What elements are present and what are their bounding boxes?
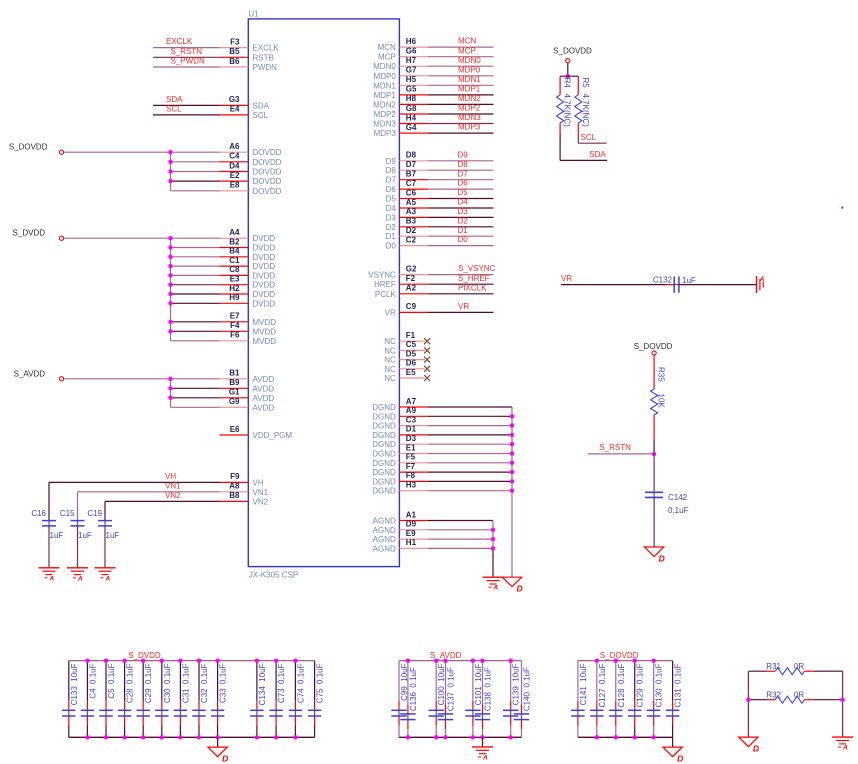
junction bbox=[651, 735, 655, 739]
pin E1 (DGND) bbox=[372, 443, 428, 458]
svg-text:MDN1: MDN1 bbox=[458, 75, 481, 84]
svg-text:SCL: SCL bbox=[166, 105, 182, 114]
svg-text:DOVDD: DOVDD bbox=[253, 177, 282, 186]
wire net D8 bbox=[428, 169, 494, 171]
IC U1 JX-K305 CSP bbox=[248, 10, 399, 580]
svg-text:A7: A7 bbox=[406, 397, 417, 406]
wire C19 to ground bbox=[104, 526, 106, 568]
bus wire S_AVDD top rail bbox=[399, 660, 522, 662]
capacitor C137 bbox=[438, 661, 456, 738]
junction bbox=[160, 659, 164, 663]
ground D (S_DVDD) bbox=[208, 747, 228, 764]
svg-text:A3: A3 bbox=[406, 207, 417, 216]
power symbol S_DOVDD bbox=[9, 143, 64, 155]
svg-text:C142: C142 bbox=[668, 493, 688, 502]
power net label S_AVDD bbox=[430, 651, 462, 660]
junction bbox=[168, 396, 172, 400]
wire net S_PWDN bbox=[153, 66, 220, 68]
junction bbox=[510, 470, 514, 474]
svg-text:D0: D0 bbox=[458, 235, 469, 244]
pin E5 (NC) bbox=[384, 368, 425, 383]
svg-text:C127 0.1uF: C127 0.1uF bbox=[598, 663, 607, 707]
junction bbox=[168, 245, 172, 249]
pin A2 (PCLK) bbox=[375, 284, 428, 299]
pin H2 (DVDD) bbox=[220, 284, 276, 299]
svg-text:C139 10uF: C139 10uF bbox=[512, 663, 521, 705]
svg-text:S_DVDD: S_DVDD bbox=[128, 651, 161, 660]
junction bbox=[633, 735, 637, 739]
junction bbox=[168, 273, 172, 277]
wire C16 to ground bbox=[48, 526, 50, 568]
junction bbox=[510, 433, 514, 437]
wire DGND bbox=[428, 425, 512, 427]
value label C16 1uF bbox=[50, 531, 64, 540]
wire S_DVDD feed bbox=[64, 237, 171, 239]
junction bbox=[510, 489, 514, 493]
svg-text:R5: R5 bbox=[581, 78, 590, 89]
svg-text:D4: D4 bbox=[386, 204, 397, 213]
junction bbox=[141, 735, 145, 739]
svg-text:MDP3: MDP3 bbox=[458, 123, 481, 132]
pin A8 (VN1) bbox=[220, 482, 269, 497]
pin H6 (MCN) bbox=[378, 37, 428, 52]
resistor R31 bbox=[766, 662, 804, 675]
pin B8 (VN2) bbox=[220, 491, 269, 506]
power symbol S_DOVDD (R35) bbox=[634, 342, 673, 355]
pin F3 (EXCLK) bbox=[220, 37, 280, 52]
svg-text:H3: H3 bbox=[406, 481, 417, 490]
wire net PIXCLK bbox=[428, 293, 494, 295]
resistor value R35 10K bbox=[657, 394, 666, 409]
svg-text:MDP3: MDP3 bbox=[374, 129, 397, 138]
svg-text:C128 0.1uF: C128 0.1uF bbox=[617, 663, 626, 707]
svg-text:B5: B5 bbox=[229, 47, 240, 56]
wire net SDA (pullup) bbox=[560, 134, 607, 160]
pin E8 (DOVDD) bbox=[220, 181, 282, 196]
wire S_AVDD branch bbox=[171, 406, 220, 408]
bus wire AGND vertical bbox=[492, 521, 494, 578]
svg-text:R31: R31 bbox=[766, 662, 781, 671]
wire S_DVDD branch bbox=[171, 302, 220, 304]
svg-text:VN1: VN1 bbox=[253, 488, 269, 497]
bus wire S_DOVDD vertical bbox=[170, 152, 172, 191]
svg-text:C140 0.1uF: C140 0.1uF bbox=[523, 667, 532, 711]
pin E3 (DVDD) bbox=[220, 275, 276, 290]
wire S_DVDD branch bbox=[171, 284, 220, 286]
svg-text:C15: C15 bbox=[60, 509, 75, 518]
junction bbox=[104, 659, 108, 663]
junction bbox=[168, 264, 172, 268]
pin A5 (D4) bbox=[386, 198, 428, 213]
junction bbox=[168, 236, 172, 240]
wire AGND bbox=[428, 547, 493, 549]
power symbol S_DOVDD (pullups) bbox=[553, 47, 592, 63]
svg-text:F7: F7 bbox=[406, 462, 416, 471]
wire net VR bbox=[428, 311, 494, 313]
svg-text:D8: D8 bbox=[406, 151, 417, 160]
net label VN1 bbox=[165, 481, 181, 490]
svg-text:S_RSTN: S_RSTN bbox=[599, 443, 631, 452]
junction bbox=[434, 659, 438, 663]
svg-text:DGND: DGND bbox=[372, 431, 396, 440]
net label D8 bbox=[458, 160, 469, 169]
wire S_DOVDD branch bbox=[171, 161, 220, 163]
capacitor C140 bbox=[514, 661, 532, 738]
svg-text:F4: F4 bbox=[230, 321, 240, 330]
junction bbox=[491, 546, 495, 550]
wire net MDN2 bbox=[428, 103, 494, 105]
svg-text:DGND: DGND bbox=[372, 440, 396, 449]
junction bbox=[122, 659, 126, 663]
pin E2 (DOVDD) bbox=[220, 171, 282, 186]
wire net MDP2 bbox=[428, 113, 494, 115]
pin E7 (MVDD) bbox=[220, 312, 277, 327]
svg-text:MDP1: MDP1 bbox=[458, 85, 481, 94]
junction bbox=[510, 451, 514, 455]
svg-text:SDA: SDA bbox=[166, 95, 183, 104]
value label C142 0.1uF bbox=[668, 506, 689, 515]
svg-text:C130 0.1uF: C130 0.1uF bbox=[655, 663, 664, 707]
svg-text:C9: C9 bbox=[406, 302, 417, 311]
svg-text:D5: D5 bbox=[458, 188, 469, 197]
svg-text:10K: 10K bbox=[657, 394, 666, 409]
svg-text:DGND: DGND bbox=[372, 403, 396, 412]
bus wire DGND vertical bbox=[511, 407, 513, 577]
svg-text:MDP1: MDP1 bbox=[374, 91, 397, 100]
ground A (R31/R32) bbox=[832, 737, 853, 752]
wire net VH bbox=[49, 482, 220, 520]
junction bbox=[840, 698, 844, 702]
svg-text:MDN2: MDN2 bbox=[373, 100, 396, 109]
wire net D1 bbox=[428, 235, 494, 237]
svg-text:MDN2: MDN2 bbox=[458, 94, 481, 103]
junction bbox=[406, 659, 410, 663]
svg-text:B2: B2 bbox=[229, 237, 240, 246]
svg-text:DOVDD: DOVDD bbox=[253, 158, 282, 167]
capacitor C16 bbox=[31, 509, 56, 526]
pin F7 (DGND) bbox=[372, 462, 428, 477]
wire net MDN3 bbox=[428, 123, 494, 125]
wire net SCL bbox=[153, 114, 220, 116]
resistor R5 bbox=[575, 76, 590, 134]
svg-text:MVDD: MVDD bbox=[253, 318, 277, 327]
svg-text:DVDD: DVDD bbox=[253, 271, 276, 280]
wire R31 left bbox=[748, 670, 775, 672]
svg-text:EXCLK: EXCLK bbox=[166, 37, 193, 46]
pin H8 (MDN2) bbox=[373, 94, 428, 109]
pin A9 (DGND) bbox=[372, 406, 428, 421]
wire S_AVDD branch bbox=[171, 397, 220, 399]
pin C8 (DVDD) bbox=[220, 265, 276, 280]
wire net MDP0 bbox=[428, 75, 494, 77]
resistor R35 bbox=[651, 355, 666, 440]
svg-text:D: D bbox=[659, 554, 665, 564]
pin C9 (VR) bbox=[385, 302, 428, 317]
svg-text:C6: C6 bbox=[406, 188, 417, 197]
svg-text:PCLK: PCLK bbox=[375, 290, 397, 299]
wire S_DVDD branch bbox=[171, 330, 220, 332]
svg-text:4.7K(NC): 4.7K(NC) bbox=[563, 94, 572, 128]
junction bbox=[480, 659, 484, 663]
wire DGND bbox=[428, 480, 512, 482]
svg-text:A: A bbox=[105, 575, 111, 582]
svg-text:SCL: SCL bbox=[253, 111, 269, 120]
wire node to C142 bbox=[653, 454, 655, 492]
svg-text:C134 10uF: C134 10uF bbox=[258, 663, 267, 705]
svg-text:H2: H2 bbox=[229, 284, 240, 293]
svg-text:S_DOVDD: S_DOVDD bbox=[9, 143, 48, 152]
junction node S_RSTN bbox=[652, 452, 656, 456]
junction bbox=[197, 735, 201, 739]
svg-text:E7: E7 bbox=[230, 312, 240, 321]
junction bbox=[122, 735, 126, 739]
pin H3 (DGND) bbox=[372, 481, 428, 496]
svg-text:MDN3: MDN3 bbox=[458, 113, 481, 122]
svg-text:B3: B3 bbox=[406, 217, 417, 226]
junction bbox=[614, 735, 618, 739]
pin D7 (D8) bbox=[386, 160, 428, 175]
ground D (C142) bbox=[644, 547, 664, 564]
wire S_DOVDD branch bbox=[171, 180, 220, 182]
svg-text:DVDD: DVDD bbox=[253, 253, 276, 262]
svg-text:VR: VR bbox=[458, 302, 469, 311]
resistor value R31 0R bbox=[794, 662, 804, 671]
wire S_DVDD branch bbox=[171, 237, 220, 239]
svg-text:C7: C7 bbox=[406, 179, 417, 188]
svg-text:C1: C1 bbox=[229, 256, 240, 265]
svg-text:D9: D9 bbox=[386, 157, 397, 166]
svg-text:D1: D1 bbox=[458, 226, 469, 235]
junction bbox=[651, 659, 655, 663]
svg-text:D5: D5 bbox=[386, 195, 397, 204]
svg-text:S_RSTN: S_RSTN bbox=[171, 47, 203, 56]
svg-text:D6: D6 bbox=[386, 185, 397, 194]
svg-text:R32: R32 bbox=[766, 691, 781, 700]
wire net D0 bbox=[428, 245, 494, 247]
capacitor C130 bbox=[647, 661, 664, 738]
capacitor C129 bbox=[628, 661, 645, 738]
pin D3 (DGND) bbox=[372, 434, 428, 449]
svg-text:D: D bbox=[677, 754, 683, 764]
wire net S_RSTN bbox=[153, 56, 220, 58]
svg-text:A: A bbox=[842, 745, 848, 752]
junction bbox=[746, 698, 750, 702]
net label S_VSYNC bbox=[458, 264, 496, 273]
wire left vertical to D ground bbox=[747, 671, 749, 737]
capacitor C32 bbox=[192, 661, 209, 738]
wire AGND bbox=[428, 538, 493, 540]
junction bbox=[509, 735, 513, 739]
svg-text:D: D bbox=[753, 744, 759, 754]
svg-text:G8: G8 bbox=[406, 104, 417, 113]
net label S_RSTN bbox=[599, 443, 631, 452]
bus wire S_DVDD top rail bbox=[69, 660, 315, 662]
svg-text:D3: D3 bbox=[386, 213, 397, 222]
svg-text:H7: H7 bbox=[406, 56, 417, 65]
net label VH bbox=[165, 472, 176, 481]
net label D3 bbox=[458, 207, 469, 216]
svg-text:C33 0.1uF: C33 0.1uF bbox=[219, 663, 228, 703]
junction bbox=[160, 735, 164, 739]
svg-text:AVDD: AVDD bbox=[253, 403, 275, 412]
svg-text:S_DVDD: S_DVDD bbox=[13, 229, 46, 238]
value label C15 1uF bbox=[78, 531, 92, 540]
wire S_AVDD feed bbox=[64, 378, 171, 380]
wire R31 right bbox=[804, 670, 842, 672]
capacitor C31 bbox=[174, 661, 191, 738]
svg-text:C3: C3 bbox=[406, 415, 417, 424]
svg-text:VN1: VN1 bbox=[165, 481, 181, 490]
pin D2 (D1) bbox=[386, 226, 428, 241]
junction bbox=[168, 377, 172, 381]
net label D1 bbox=[458, 226, 469, 235]
wire net SDA bbox=[153, 104, 220, 106]
wire net MDP1 bbox=[428, 94, 494, 96]
bus wire S_DVDD vertical bbox=[170, 238, 172, 341]
capacitor C19 bbox=[87, 509, 112, 526]
net label SDA bbox=[166, 95, 183, 104]
svg-text:NC: NC bbox=[384, 356, 396, 365]
wire net MDP3 bbox=[428, 132, 494, 134]
net label MDN1 bbox=[458, 75, 481, 84]
net label S_HREF bbox=[458, 274, 490, 283]
net label VR bbox=[458, 302, 469, 311]
svg-text:B7: B7 bbox=[406, 170, 417, 179]
junction bbox=[168, 329, 172, 333]
net label SDA bbox=[589, 150, 606, 159]
capacitor C73 bbox=[269, 661, 286, 738]
net label MDP1 bbox=[458, 85, 481, 94]
svg-text:B9: B9 bbox=[229, 378, 240, 387]
bus wire S_DOVDD top rail bbox=[578, 660, 673, 662]
pin D5 (NC) bbox=[384, 349, 425, 364]
svg-text:C19: C19 bbox=[87, 509, 102, 518]
svg-text:DGND: DGND bbox=[372, 450, 396, 459]
pin H1 (AGND) bbox=[373, 538, 428, 553]
speck bbox=[841, 207, 843, 209]
svg-text:A: A bbox=[493, 585, 499, 592]
svg-text:D4: D4 bbox=[458, 198, 469, 207]
wire net D5 bbox=[428, 198, 494, 200]
pin F5 (DGND) bbox=[372, 453, 428, 468]
svg-text:D7: D7 bbox=[458, 169, 469, 178]
svg-text:G7: G7 bbox=[406, 66, 417, 75]
junction bbox=[293, 659, 297, 663]
svg-text:D8: D8 bbox=[386, 166, 397, 175]
net label EXCLK bbox=[166, 37, 193, 46]
svg-text:G9: G9 bbox=[229, 397, 240, 406]
bus wire S_AVDD vertical bbox=[170, 379, 172, 408]
wire net D2 bbox=[428, 226, 494, 228]
capacitor C139 bbox=[503, 661, 521, 738]
wire C15 to ground bbox=[77, 526, 79, 568]
svg-text:F9: F9 bbox=[230, 472, 240, 481]
pin D6 (NC) bbox=[384, 359, 425, 374]
capacitor C134 bbox=[250, 661, 267, 738]
pin G7 (MDP0) bbox=[374, 66, 428, 81]
wire net EXCLK bbox=[153, 47, 220, 49]
svg-text:A6: A6 bbox=[229, 142, 240, 151]
junction bbox=[168, 320, 172, 324]
resistor value R32 0R bbox=[794, 691, 804, 700]
capacitor C131 bbox=[666, 661, 683, 738]
svg-text:R35: R35 bbox=[657, 367, 666, 382]
capacitor C128 bbox=[609, 661, 626, 738]
svg-text:DOVDD: DOVDD bbox=[253, 168, 282, 177]
svg-text:1uF: 1uF bbox=[106, 531, 120, 540]
svg-text:B8: B8 bbox=[229, 491, 240, 500]
svg-text:DGND: DGND bbox=[372, 477, 396, 486]
svg-text:B1: B1 bbox=[229, 369, 240, 378]
svg-text:MDP2: MDP2 bbox=[374, 110, 397, 119]
wire DGND bbox=[428, 490, 512, 492]
svg-text:EXCLK: EXCLK bbox=[253, 44, 280, 53]
svg-text:AGND: AGND bbox=[373, 535, 396, 544]
svg-text:DOVDD: DOVDD bbox=[253, 187, 282, 196]
svg-text:MCP: MCP bbox=[458, 46, 476, 55]
svg-text:VR: VR bbox=[385, 308, 396, 317]
svg-text:JX-K305 CSP: JX-K305 CSP bbox=[249, 571, 298, 580]
svg-text:1uF: 1uF bbox=[50, 531, 64, 540]
wire net MDN1 bbox=[428, 84, 494, 86]
svg-text:D0: D0 bbox=[386, 242, 397, 251]
pin B6 (PWDN) bbox=[220, 57, 278, 72]
svg-text:F3: F3 bbox=[230, 37, 240, 46]
net label SCL bbox=[166, 105, 182, 114]
junction bbox=[406, 735, 410, 739]
wire net D9 bbox=[428, 160, 494, 162]
svg-text:NC: NC bbox=[384, 365, 396, 374]
svg-text:NC: NC bbox=[384, 337, 396, 346]
junction bbox=[168, 283, 172, 287]
pin A7 (DGND) bbox=[372, 397, 428, 412]
value label C19 1uF bbox=[106, 531, 120, 540]
wire net MDN0 bbox=[428, 65, 494, 67]
svg-text:D: D bbox=[517, 584, 523, 594]
svg-text:DGND: DGND bbox=[372, 487, 396, 496]
wire DGND bbox=[428, 443, 512, 445]
wire AGND bbox=[428, 520, 493, 522]
net label VR (bypass) bbox=[561, 274, 572, 283]
svg-text:S_AVDD: S_AVDD bbox=[14, 369, 46, 378]
svg-text:D2: D2 bbox=[386, 223, 397, 232]
svg-text:C141 10uF: C141 10uF bbox=[579, 663, 588, 705]
svg-text:C30 0.1uF: C30 0.1uF bbox=[163, 663, 172, 703]
svg-text:C129 0.1uF: C129 0.1uF bbox=[636, 663, 645, 707]
net label PIXCLK bbox=[458, 283, 487, 292]
net label D5 bbox=[458, 188, 469, 197]
svg-text:MDP0: MDP0 bbox=[374, 72, 397, 81]
svg-text:C75 0.1uF: C75 0.1uF bbox=[316, 663, 325, 703]
pin C7 (D6) bbox=[386, 179, 428, 194]
capacitor C141 bbox=[571, 661, 588, 738]
net label MDP3 bbox=[458, 123, 481, 132]
wire net D4 bbox=[428, 207, 494, 209]
pin E6 (VDD_PGM) bbox=[220, 425, 293, 440]
no-connect X bbox=[424, 375, 430, 381]
pin G2 (VSYNC) bbox=[368, 264, 428, 279]
pin G5 (MDP1) bbox=[374, 85, 428, 100]
svg-text:PIXCLK: PIXCLK bbox=[458, 283, 487, 292]
svg-text:E2: E2 bbox=[230, 171, 240, 180]
svg-text:A: A bbox=[759, 277, 764, 283]
capacitor C138 bbox=[475, 661, 493, 738]
svg-text:C74 0.1uF: C74 0.1uF bbox=[296, 663, 305, 703]
svg-text:E1: E1 bbox=[406, 443, 416, 452]
net label MDN2 bbox=[458, 94, 481, 103]
svg-text:AVDD: AVDD bbox=[253, 375, 275, 384]
svg-text:SDA: SDA bbox=[253, 101, 270, 110]
